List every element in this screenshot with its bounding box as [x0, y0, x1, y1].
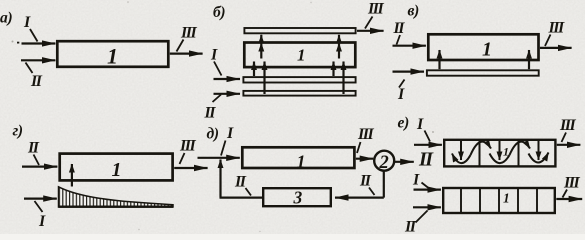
- cell divider 1 (e top): [479, 139, 481, 167]
- channel strip (v): [427, 70, 539, 75]
- wire I into strip (v): [393, 70, 425, 72]
- leader tick from III (v): [545, 35, 551, 47]
- node III (b) label: [367, 1, 384, 18]
- wire out of mixer (d): [394, 161, 414, 163]
- digit 1 (v): [482, 39, 492, 61]
- circulation down arrow cell 2 (e top): [499, 140, 501, 160]
- vertical arrow pair right box-to-strip (b): [338, 43, 340, 59]
- cell divider 1 (e bottom): [460, 188, 462, 213]
- node I (v) label: [397, 86, 405, 103]
- leader tick from I (d): [221, 141, 226, 156]
- digit 1 (g): [112, 159, 122, 181]
- leader tick from II right (d): [369, 188, 375, 196]
- apparatus box 1 (a): [57, 41, 168, 67]
- leader tick from II (a): [26, 63, 33, 74]
- wire III out of top strip (b): [357, 30, 384, 32]
- wire II into cell apparatus (e bottom): [413, 206, 441, 208]
- wire II into strip B (b): [214, 93, 241, 95]
- svg-text:1: 1: [107, 44, 118, 69]
- svg-text:1: 1: [503, 145, 509, 159]
- svg-text:1: 1: [482, 39, 492, 61]
- node II bottom (e) label: [404, 219, 417, 236]
- node III (d) label: [357, 126, 374, 143]
- digit 1 (e bottom): [503, 191, 510, 206]
- leader tick from I top (e): [425, 131, 431, 142]
- leader tick from III (a): [177, 40, 184, 52]
- node III top (e) label: [559, 117, 576, 134]
- wire I into apparatus 1 (d): [198, 157, 240, 159]
- digit 1 (a): [107, 44, 118, 69]
- circulation down arrow cell 3 (e top): [538, 140, 540, 160]
- node I (d) label: [226, 125, 234, 142]
- apparatus box 1 (v): [428, 34, 538, 60]
- apparatus box 1 (d): [242, 147, 354, 168]
- leader tick from I (b): [214, 62, 222, 76]
- cell divider 2 (e bottom): [479, 188, 481, 213]
- node II right (d) label: [359, 173, 372, 190]
- svg-text:д): д): [207, 126, 219, 143]
- svg-text:г): г): [13, 123, 23, 140]
- circulation U-curve cell 2 (e top): [490, 154, 510, 164]
- recycle riser with up arrow (d): [219, 160, 221, 198]
- wire II into apparatus (v): [393, 45, 426, 47]
- vertical arrow right strip-to-box (v): [528, 50, 530, 69]
- circulation arc cell1-cell2 (e top): [471, 142, 492, 155]
- svg-text:в): в): [408, 3, 420, 20]
- svg-text:III: III: [179, 138, 196, 155]
- scheme d letter label: [207, 126, 219, 143]
- scheme b letter label: [213, 4, 225, 21]
- vertical arrow from strip A left (b): [253, 62, 255, 77]
- circulation arc cell2-cell3 (e top): [510, 142, 531, 155]
- wire III out (e bottom): [556, 198, 582, 200]
- vertical arrow from strip A right (b): [332, 62, 334, 77]
- scan specks: [12, 1, 435, 232]
- circulation down arrow cell 1 (e top): [460, 140, 462, 160]
- leader tick from II (b): [213, 95, 222, 103]
- leader tick from III top (e): [562, 133, 567, 143]
- svg-text:3: 3: [293, 188, 303, 208]
- cell divider 2 (e top): [518, 139, 520, 167]
- node II left (d) label: [234, 174, 247, 191]
- svg-text:III: III: [180, 25, 197, 42]
- scheme a letter label: [0, 10, 12, 27]
- svg-text:III: III: [367, 1, 384, 18]
- leader tick from I (g): [35, 201, 43, 212]
- wire II into apparatus (a): [21, 59, 55, 61]
- mixer circle 2 (d): [374, 151, 394, 171]
- svg-text:III: III: [548, 20, 565, 37]
- node I (g) label: [38, 213, 46, 230]
- digit 1 (e top): [503, 145, 509, 159]
- wire II into apparatus (g): [22, 166, 57, 168]
- node I bottom (e) label: [412, 172, 420, 189]
- leader tick from II left (d): [246, 188, 252, 196]
- scheme v letter label: [408, 3, 420, 20]
- node III (v) label: [548, 20, 565, 37]
- scheme g letter label: [13, 123, 23, 140]
- circulation U-curve cell 3 (e top): [529, 153, 549, 163]
- node III (a) label: [180, 25, 197, 42]
- svg-text:III: III: [563, 175, 580, 192]
- cell divider 5 (e bottom): [536, 188, 538, 213]
- vertical arrow left strip-to-box (v): [438, 50, 440, 69]
- leader tick from II (g): [34, 155, 40, 166]
- recycle wire from box 3 to riser (d): [220, 197, 264, 199]
- node II (a) label: [30, 73, 43, 90]
- top channel strip (b): [244, 28, 355, 33]
- wire III out (e top): [557, 144, 581, 146]
- leader tick from III (b): [365, 17, 373, 29]
- vertical arrow pair left box-to-strip (b): [260, 43, 262, 59]
- leader tick from III bottom (e): [563, 190, 568, 198]
- cell apparatus box (e bottom): [443, 188, 555, 213]
- node II (g) label: [27, 140, 40, 157]
- digit 1 (b): [297, 46, 306, 65]
- digit 3 (d): [293, 188, 303, 208]
- node II (b) label: [204, 105, 217, 122]
- leader tick from II (v): [397, 35, 401, 45]
- svg-text:1: 1: [297, 46, 306, 65]
- digit 1 (d): [297, 152, 306, 172]
- node I top (e) label: [416, 116, 424, 133]
- wire I into apparatus (a): [22, 42, 56, 44]
- wire I into wedge (g): [24, 198, 57, 200]
- leader tick from II bottom (e): [416, 211, 428, 223]
- leader tick from I (v): [399, 80, 405, 88]
- svg-text:а): а): [0, 10, 12, 27]
- svg-text:III: III: [559, 117, 576, 134]
- node II top (e) label: [418, 149, 434, 171]
- vertical arrow from strip B right (b): [342, 62, 344, 95]
- leader tick from III (g): [180, 153, 185, 164]
- node III (g) label: [179, 138, 196, 155]
- apparatus box 1 (b): [244, 43, 355, 68]
- channel strip B (b): [243, 91, 355, 96]
- digit 2 (d): [379, 153, 389, 173]
- apparatus box 1 (g): [60, 154, 173, 181]
- wire III out of apparatus (g): [174, 167, 207, 169]
- wire I into mixing apparatus (e): [414, 144, 442, 146]
- svg-text:1: 1: [503, 191, 510, 206]
- wire I into cell apparatus (e bottom): [414, 189, 441, 191]
- node I (b) label: [210, 47, 218, 64]
- dash before wire I (a): [17, 42, 19, 44]
- leader tick from III (d): [357, 142, 361, 153]
- leader tick from I (a): [30, 29, 38, 42]
- node I (a) label: [23, 14, 31, 31]
- channel strip A (b): [243, 77, 355, 82]
- cell divider 3 (e bottom): [498, 188, 500, 213]
- node III bottom (e) label: [563, 175, 580, 192]
- svg-text:1: 1: [112, 159, 122, 181]
- wire apparatus-to-mixer (d): [356, 158, 374, 160]
- wire III out of apparatus (v): [540, 47, 572, 49]
- drop line from mixer (d): [383, 171, 385, 198]
- svg-text:е): е): [398, 115, 410, 132]
- svg-text:III: III: [357, 126, 374, 143]
- svg-text:1: 1: [297, 152, 306, 172]
- leader tick from I bottom (e): [422, 183, 429, 189]
- recycle box 3 (d): [263, 188, 331, 206]
- wire III out of apparatus (a): [170, 52, 203, 54]
- node II (v) label: [393, 20, 406, 37]
- wire I into strip A (b): [214, 78, 241, 80]
- circulation U-curve cell 1 (e top): [452, 154, 471, 164]
- cell divider 4 (e bottom): [517, 188, 519, 213]
- recycle wire into box 3 (d): [335, 197, 384, 199]
- vertical arrow from strip B left (b): [263, 62, 265, 95]
- scheme e letter label: [398, 115, 410, 132]
- mixing apparatus box (e top): [444, 140, 555, 167]
- hatched wedge feeder (g): [59, 187, 174, 207]
- svg-text:2: 2: [379, 153, 389, 173]
- svg-text:б): б): [213, 4, 225, 21]
- vertical arrow wedge-to-box (g): [71, 164, 73, 187]
